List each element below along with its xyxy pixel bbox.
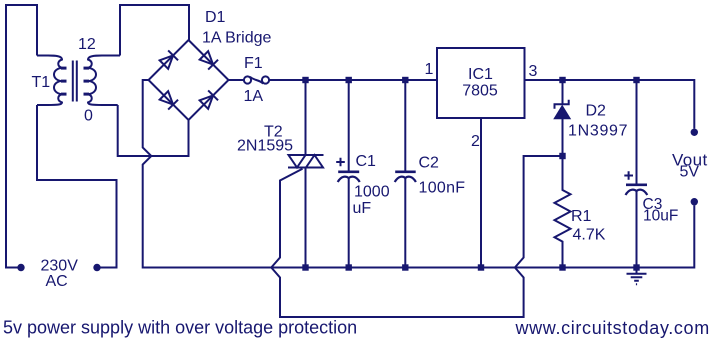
wire bridge left corner down, hop, to bottom rail and to Vout lower — [143, 80, 695, 268]
svg-text:1A Bridge: 1A Bridge — [202, 30, 271, 47]
fuse F1 — [244, 76, 251, 83]
diode D1a top-left — [159, 50, 178, 69]
svg-text:7805: 7805 — [462, 83, 498, 100]
svg-text:C1: C1 — [356, 153, 377, 170]
svg-text:230V: 230V — [41, 258, 79, 275]
svg-text:www.circuitstoday.com: www.circuitstoday.com — [515, 318, 710, 338]
zener diode D2 — [562, 80, 564, 104]
svg-text:12: 12 — [78, 36, 96, 53]
resistor R1 — [555, 156, 571, 268]
svg-text:F1: F1 — [244, 55, 263, 72]
svg-text:1A: 1A — [244, 88, 264, 105]
svg-text:2N1595: 2N1595 — [237, 138, 293, 155]
wire secondary 12 terminal to bridge top — [120, 5, 189, 56]
transistor T2 (SCR) symbol — [288, 155, 324, 168]
svg-text:5v power supply with over volt: 5v power supply with over voltage protec… — [3, 318, 357, 338]
svg-text:C2: C2 — [419, 155, 440, 172]
svg-text:1000: 1000 — [354, 184, 390, 201]
terminal dots 230V AC — [17, 129, 698, 272]
wire T2 anode from top rail — [305, 80, 307, 155]
diode D1c bottom-left — [159, 90, 178, 109]
capacitor C1 — [348, 80, 350, 171]
svg-text:0: 0 — [84, 108, 93, 125]
svg-text:2: 2 — [471, 133, 480, 150]
wire secondary 0 terminal to bridge bottom — [118, 105, 189, 156]
op-amp IC1 box — [437, 48, 525, 118]
svg-text:100nF: 100nF — [419, 180, 466, 197]
wire AC left lead to transformer primary top — [6, 5, 37, 268]
wire IC1 pin2 down to bottom rail — [480, 118, 482, 268]
wire T2 cathode to bottom rail — [305, 168, 307, 268]
svg-text:AC: AC — [46, 273, 68, 290]
svg-text:1: 1 — [425, 61, 434, 78]
capacitor C3 — [636, 80, 638, 184]
wire primary bottom to AC right terminal — [37, 105, 117, 268]
wire bridge right corner to fuse — [229, 79, 245, 81]
svg-text:IC1: IC1 — [468, 66, 493, 83]
svg-text:R1: R1 — [571, 208, 592, 225]
transformer T1 secondary winding — [88, 56, 120, 106]
transformer T1 core — [73, 61, 77, 102]
svg-text:D1: D1 — [205, 9, 226, 26]
ground — [627, 268, 647, 285]
capacitor C2 — [404, 80, 406, 171]
svg-text:uF: uF — [353, 200, 372, 217]
svg-text:10uF: 10uF — [643, 208, 678, 225]
svg-text:4.7K: 4.7K — [573, 227, 606, 244]
transformer T1 primary winding — [37, 56, 62, 106]
svg-text:D2: D2 — [586, 103, 607, 120]
wire IC1 pin3 to Vout upper (right rail) — [525, 80, 695, 129]
diode D1d bottom-right — [199, 90, 218, 109]
svg-text:3: 3 — [529, 63, 538, 80]
svg-text:T1: T1 — [32, 74, 51, 91]
svg-text:1N3997: 1N3997 — [568, 123, 628, 140]
bridge rectifier D1 diamond — [149, 40, 229, 120]
wire T2 gate loop to D2/R1 node — [271, 156, 562, 317]
wire fuse to IC1 pin1 (top rail) — [269, 79, 437, 81]
svg-text:5V: 5V — [680, 164, 700, 181]
diode D1b top-right — [199, 50, 218, 69]
